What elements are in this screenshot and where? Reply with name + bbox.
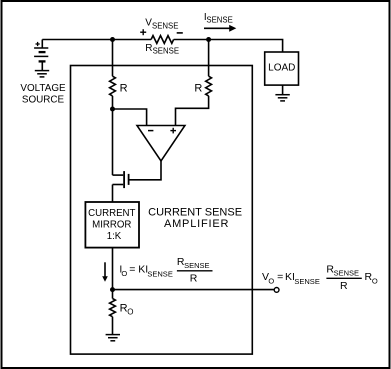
node B junction <box>206 37 211 42</box>
wire: current mirror to node D <box>112 248 114 290</box>
node D junction <box>110 287 115 292</box>
resistor RSENSE <box>151 36 174 44</box>
label ISENSE <box>204 12 233 25</box>
svg-text:=: = <box>277 271 283 283</box>
svg-text:VOLTAGE: VOLTAGE <box>20 83 66 94</box>
current mirror U2 <box>85 202 139 248</box>
svg-text:O: O <box>372 277 378 286</box>
output terminal VO <box>274 288 279 293</box>
wire: node A to R_SENSE left lead <box>113 39 152 41</box>
label RO <box>120 302 134 316</box>
ground (RO) <box>106 335 120 341</box>
svg-text:1:K: 1:K <box>107 231 122 242</box>
node C junction <box>110 107 115 112</box>
label plus (VSENSE polarity) <box>140 29 146 35</box>
svg-text:SENSE: SENSE <box>147 270 172 279</box>
svg-text:SENSE: SENSE <box>184 261 209 270</box>
svg-text:AMPLIFIER: AMPLIFIER <box>164 218 229 230</box>
svg-text:SENSE: SENSE <box>334 269 359 278</box>
ground (load) <box>275 95 289 101</box>
svg-text:R: R <box>145 43 152 54</box>
resistor R1 <box>110 76 116 96</box>
transistor Q1 (MOSFET) <box>113 171 129 188</box>
svg-text:CURRENT SENSE: CURRENT SENSE <box>148 206 242 218</box>
load box <box>265 52 299 85</box>
svg-text:SOURCE: SOURCE <box>22 95 65 106</box>
svg-text:=: = <box>129 263 135 275</box>
node A junction <box>110 37 115 42</box>
ground (voltage source) <box>35 71 49 77</box>
svg-text:R: R <box>194 83 202 95</box>
arrow: ISENSE direction <box>204 25 236 32</box>
arrow: IO current direction <box>102 262 108 281</box>
wire: MOSFET source to current mirror <box>112 185 114 203</box>
wire: LOAD to ground <box>282 85 284 95</box>
wire: battery positive to node A <box>42 39 112 41</box>
resistor RO <box>110 299 116 317</box>
svg-text:O: O <box>268 277 274 286</box>
label VO formula <box>262 263 378 292</box>
svg-text:MIRROR: MIRROR <box>92 220 131 231</box>
wire: node D to output terminal <box>113 289 275 291</box>
svg-text:SENSE: SENSE <box>294 277 319 286</box>
wire: R2 to op-amp non-inverting input <box>176 96 209 126</box>
svg-text:SENSE: SENSE <box>153 47 179 56</box>
amplifier boundary box <box>71 66 253 355</box>
label VOLTAGE SOURCE <box>20 83 66 105</box>
wire: R1 to node C <box>112 96 114 109</box>
wire: node B down to R2 <box>208 40 210 77</box>
wire: node B to LOAD <box>209 40 283 53</box>
svg-text:CURRENT: CURRENT <box>88 208 135 219</box>
wire: op-amp output to MOSFET gate <box>129 161 161 180</box>
svg-text:O: O <box>121 269 127 278</box>
wire: node C to MOSFET drain <box>112 109 114 175</box>
svg-text:R: R <box>190 272 198 284</box>
voltage source battery <box>34 40 48 71</box>
svg-text:SENSE: SENSE <box>152 21 178 30</box>
wire: node C to op-amp inverting input <box>113 109 147 126</box>
op-amp U1 <box>137 126 185 162</box>
resistor R2 <box>206 76 212 96</box>
wire: node A down to R1 <box>112 40 114 77</box>
label plus (battery) <box>36 42 40 46</box>
svg-text:SENSE: SENSE <box>206 16 232 25</box>
svg-text:O: O <box>127 307 133 316</box>
wire: R_SENSE right lead to node B <box>174 39 209 41</box>
label RSENSE <box>145 43 179 56</box>
wire: node D down to RO <box>112 290 114 299</box>
svg-text:LOAD: LOAD <box>268 63 295 74</box>
svg-text:R: R <box>120 83 128 95</box>
label IO formula <box>119 256 212 285</box>
svg-text:R: R <box>340 280 348 292</box>
label minus (VSENSE polarity) <box>177 32 183 34</box>
wire: RO to ground <box>112 317 114 335</box>
label CURRENT SENSE AMPLIFIER <box>148 206 242 230</box>
label VSENSE <box>145 18 178 31</box>
